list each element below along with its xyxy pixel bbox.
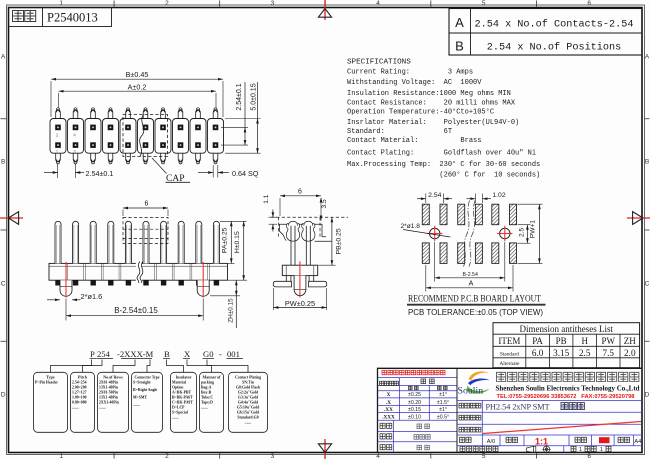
svg-text:6: 6 bbox=[587, 453, 591, 459]
dimension PB±0.25 (rotated) bbox=[319, 264, 336, 266]
svg-text:2X01-50Pin: 2X01-50Pin bbox=[99, 390, 119, 394]
svg-text:001: 001 bbox=[227, 349, 240, 359]
pcb dimension B-2.54 bbox=[434, 242, 436, 282]
pcb layout: hole left with red cross bbox=[430, 228, 440, 238]
front view: SMT feet bbox=[55, 280, 219, 285]
svg-text:D=LCP: D=LCP bbox=[172, 405, 185, 409]
svg-text:B: B bbox=[645, 158, 649, 165]
svg-text:C: C bbox=[645, 280, 650, 287]
dimension B-2.54±0.15 (peg span) bbox=[65, 299, 67, 321]
version row texts bbox=[460, 437, 472, 442]
pcb layout: pads bottom row bbox=[422, 243, 516, 264]
svg-text:1.1: 1.1 bbox=[263, 194, 270, 203]
pcb dimension 1.02 bbox=[474, 194, 476, 204]
svg-text:P2540013: P2540013 bbox=[47, 11, 98, 25]
svg-text:Bag:A: Bag:A bbox=[201, 385, 212, 389]
sheet centering marker top bbox=[324, 0, 326, 20]
sign rows: design / check / approve bbox=[380, 423, 392, 428]
side view: gull-wing leg left bbox=[273, 276, 291, 287]
svg-text:.......: ....... bbox=[133, 403, 140, 407]
svg-text:PB: PB bbox=[556, 336, 567, 346]
file row red slash bbox=[483, 422, 641, 434]
bottom row: projection + sheet count bbox=[563, 446, 565, 452]
svg-text:Box:B: Box:B bbox=[201, 390, 212, 394]
svg-text:Option: Option bbox=[172, 385, 184, 389]
svg-text:M=SMT: M=SMT bbox=[133, 396, 147, 400]
svg-text:-2XXX-M: -2XXX-M bbox=[117, 349, 154, 359]
svg-text:±0.10: ±0.10 bbox=[408, 414, 421, 420]
svg-text:Current Rating: 3 Amps: Current Rating: 3 Amps bbox=[347, 69, 473, 77]
sheet centering marker left bbox=[0, 217, 23, 219]
svg-text:1.27=127: 1.27=127 bbox=[72, 390, 87, 394]
svg-text:±0.25: ±0.25 bbox=[408, 392, 421, 398]
svg-text:S=Special: S=Special bbox=[172, 410, 188, 414]
front view: locating peg left bbox=[60, 280, 72, 296]
option box Insulator Material bbox=[171, 372, 197, 432]
svg-text:2.54 x No.of Contacts-2.54: 2.54 x No.of Contacts-2.54 bbox=[475, 19, 634, 31]
svg-text:Insulator: Insulator bbox=[176, 374, 192, 379]
svg-text:A: A bbox=[1, 53, 6, 60]
svg-text:±0.5°: ±0.5° bbox=[437, 414, 449, 420]
svg-text:2.0: 2.0 bbox=[624, 348, 636, 358]
svg-text:1: 1 bbox=[59, 453, 63, 459]
dimension 6 (cap width, front view) bbox=[122, 210, 124, 217]
svg-text:2.5: 2.5 bbox=[519, 227, 526, 236]
option box Connector Type bbox=[132, 372, 163, 432]
svg-text:PA±0.25: PA±0.25 bbox=[221, 227, 228, 253]
svg-text:2*ø1.8: 2*ø1.8 bbox=[401, 223, 421, 230]
svg-text:3: 3 bbox=[271, 453, 275, 459]
svg-text:.X: .X bbox=[386, 400, 391, 406]
svg-text:Manner of: Manner of bbox=[202, 374, 221, 379]
svg-text:2.54 x No.of Positions: 2.54 x No.of Positions bbox=[487, 42, 622, 54]
svg-text:G0:Gold Flash: G0:Gold Flash bbox=[236, 385, 261, 389]
svg-text:A/0: A/0 bbox=[487, 439, 495, 445]
top view: CAP leader and label bbox=[152, 158, 167, 174]
svg-text:2: 2 bbox=[165, 0, 169, 7]
ordering code underlines bbox=[90, 358, 244, 360]
svg-text:ZH: ZH bbox=[624, 336, 636, 346]
svg-text:.XXX: .XXX bbox=[382, 414, 395, 420]
dimension A±0.2 (top view pin span) bbox=[58, 93, 60, 108]
svg-text:A4: A4 bbox=[634, 439, 641, 445]
svg-text:1.00=100: 1.00=100 bbox=[72, 395, 87, 399]
svg-text:±1.5°: ±1.5° bbox=[437, 400, 449, 406]
svg-text:3: 3 bbox=[271, 0, 275, 7]
option box Contact Plating bbox=[229, 372, 268, 432]
title block right grid bbox=[457, 400, 642, 402]
front view: locating peg right bbox=[197, 280, 209, 296]
svg-text:±0.20: ±0.20 bbox=[408, 400, 421, 406]
svg-text:C=BK-PA9T: C=BK-PA9T bbox=[172, 400, 193, 404]
tolerance table red header bbox=[382, 370, 445, 375]
dimension PA±0.25 (pin height, rotated) bbox=[220, 220, 247, 222]
svg-text:A: A bbox=[469, 278, 474, 287]
sheet centering marker bottom bbox=[324, 439, 326, 459]
pcb dimension 2.5 (rotated) bbox=[518, 224, 531, 226]
svg-text:A=BK-PBT: A=BK-PBT bbox=[172, 390, 192, 394]
svg-text:Contact Plating: Goldfla: Contact Plating: Goldflash over 40u" Ni bbox=[347, 150, 536, 158]
dimension 2*Ø1.6 (peg diameter) bbox=[47, 299, 60, 301]
side view: left ledge profile bbox=[279, 224, 287, 240]
svg-text:2.54±0.1: 2.54±0.1 bbox=[236, 83, 243, 110]
svg-text:1.02: 1.02 bbox=[492, 192, 505, 199]
svg-text:±1°: ±1° bbox=[439, 407, 447, 413]
pcb layout: pads top row bbox=[422, 204, 516, 225]
svg-text:H±0.15: H±0.15 bbox=[234, 231, 241, 253]
svg-text:Type: Type bbox=[46, 374, 55, 379]
A/B formula table bbox=[449, 9, 642, 56]
svg-text:Withstanding Voltage: AC 100: Withstanding Voltage: AC 1000V bbox=[347, 79, 482, 87]
tolerance table grid (blue) bbox=[378, 377, 458, 379]
svg-text:S=Straight: S=Straight bbox=[133, 380, 151, 384]
svg-text:.......: ....... bbox=[72, 405, 79, 409]
side view: cap dashed sides bbox=[278, 217, 280, 237]
svg-text:PH2.54 2xNP SMT: PH2.54 2xNP SMT bbox=[486, 403, 550, 412]
svg-text:P=Pin Header: P=Pin Header bbox=[35, 380, 58, 384]
svg-text:TEL:0755-29520696 33853672 F: TEL:0755-29520696 33853672 FAX:0755-2952… bbox=[497, 394, 635, 400]
svg-text:(260° C for 10 seconds): (260° C for 10 seconds) bbox=[347, 171, 540, 180]
svg-text:Tape:D: Tape:D bbox=[201, 400, 213, 404]
svg-text:Insulation Resistance:1000 Meg: Insulation Resistance:1000 Meg ohms MIN bbox=[347, 90, 511, 98]
front view: red center lines through pegs bbox=[65, 262, 67, 298]
svg-text:Alternate: Alternate bbox=[499, 361, 520, 367]
option box Pitch bbox=[71, 372, 95, 432]
svg-text:Contact Plating: Contact Plating bbox=[235, 375, 261, 379]
part number box bbox=[9, 8, 112, 27]
side view: cap dashed top line bbox=[271, 216, 348, 218]
svg-text:Shenzhen Soulin Electronics Te: Shenzhen Soulin Electronics Technology C… bbox=[496, 385, 640, 392]
svg-text:3.5: 3.5 bbox=[321, 199, 328, 208]
option box Type bbox=[34, 372, 68, 432]
svg-text:Tube:C: Tube:C bbox=[201, 395, 213, 399]
svg-text:D: D bbox=[1, 391, 6, 398]
dimension 2.54±0.1 row pitch (right side, rotated) bbox=[221, 126, 248, 128]
svg-text:3.15: 3.15 bbox=[553, 348, 569, 358]
svg-text:A±0.2: A±0.2 bbox=[128, 82, 147, 91]
svg-text:2XX1-40Pin: 2XX1-40Pin bbox=[99, 400, 120, 404]
top view: header body segments bbox=[50, 119, 224, 154]
svg-text:P: P bbox=[90, 349, 95, 359]
svg-text:6: 6 bbox=[298, 188, 302, 195]
ordering code leader lines bbox=[51, 360, 249, 373]
dimension ZH±0.15 (peg depth, rotated) bbox=[210, 295, 240, 297]
svg-text:6: 6 bbox=[587, 0, 591, 7]
svg-text:.......: ....... bbox=[172, 415, 179, 419]
svg-text:.......: ....... bbox=[245, 420, 252, 424]
side view: right ledge profile bbox=[300, 224, 332, 241]
svg-text:ZH±0.15: ZH±0.15 bbox=[228, 298, 235, 323]
company chinese name bbox=[497, 372, 639, 381]
svg-text:D: D bbox=[645, 391, 650, 398]
version row cells bbox=[499, 435, 501, 446]
svg-text:SPECIFICATIONS: SPECIFICATIONS bbox=[347, 58, 411, 66]
svg-text:B±0.45: B±0.45 bbox=[126, 70, 149, 79]
svg-text:Material: Material bbox=[172, 380, 186, 384]
svg-text:PW: PW bbox=[602, 336, 616, 346]
svg-text:Soulin: Soulin bbox=[458, 386, 484, 397]
sheet count text bbox=[571, 446, 576, 451]
svg-text:4: 4 bbox=[376, 0, 380, 7]
svg-text:PW+1: PW+1 bbox=[529, 220, 536, 238]
svg-text:Pitch: Pitch bbox=[78, 374, 88, 379]
label TuHao (drawing no.) bbox=[13, 11, 36, 22]
svg-text:B-2.54: B-2.54 bbox=[463, 272, 478, 278]
svg-text:.......: ....... bbox=[201, 405, 208, 409]
dimension PW±0.25 (leg span) bbox=[272, 288, 274, 310]
svg-text:4: 4 bbox=[376, 453, 380, 459]
signer names bbox=[417, 424, 429, 429]
option box No.of Rows bbox=[98, 372, 129, 432]
dimension H±0.15 (rotated) bbox=[228, 279, 247, 281]
top view: pin numbers 1-4 bbox=[56, 133, 77, 155]
svg-text:7.5: 7.5 bbox=[603, 348, 615, 358]
svg-text:6: 6 bbox=[145, 201, 149, 208]
svg-text:254: 254 bbox=[97, 349, 111, 359]
dimension 1.1 (rotated) bbox=[269, 216, 278, 218]
svg-text:packing: packing bbox=[201, 380, 214, 384]
border zone ticks and labels bbox=[113, 1, 115, 8]
svg-text:2: 2 bbox=[165, 453, 169, 459]
dimension 6 (side view cap width) bbox=[279, 198, 281, 216]
top view: break squiggle inside CAP bbox=[140, 115, 144, 157]
svg-text:-: - bbox=[219, 349, 222, 359]
svg-text:13X1-40Pin: 13X1-40Pin bbox=[99, 395, 119, 399]
svg-text:B=BK-PA6T: B=BK-PA6T bbox=[172, 395, 193, 399]
title block outline bbox=[378, 368, 643, 452]
svg-text:B: B bbox=[164, 349, 170, 359]
svg-text:Standard: Standard bbox=[500, 351, 519, 357]
svg-text:Insrlator Material: Polyest: Insrlator Material: Polyester(UL94V-0) bbox=[347, 119, 519, 127]
dimension 0.64 SQ (pin cross-section) bbox=[212, 165, 214, 178]
svg-text:B: B bbox=[1, 158, 5, 165]
svg-text:5.0±0.15: 5.0±0.15 bbox=[251, 83, 258, 110]
top view: CAP dashed outline bbox=[123, 115, 168, 157]
side view: gull-wing leg right bbox=[308, 276, 326, 287]
svg-text:No.of Rows: No.of Rows bbox=[103, 374, 123, 379]
side view: contacts (two tulip contacts) bbox=[286, 221, 315, 265]
option box Manner of packing bbox=[200, 372, 224, 432]
svg-text:PW±0.25: PW±0.25 bbox=[285, 299, 315, 308]
company logo swoosh bbox=[469, 371, 490, 380]
dimension B±0.45 (top view overall width) bbox=[50, 81, 52, 117]
svg-text:2.54±0.1: 2.54±0.1 bbox=[86, 169, 114, 178]
svg-text:X: X bbox=[387, 392, 391, 398]
svg-text:Dimension antitheses List: Dimension antitheses List bbox=[520, 324, 614, 334]
svg-text:Standard:G0: Standard:G0 bbox=[237, 415, 258, 419]
svg-text:0.64 SQ: 0.64 SQ bbox=[232, 169, 259, 178]
svg-text:1: 1 bbox=[600, 447, 603, 453]
top view: contact square holes bbox=[55, 125, 218, 148]
svg-text:G5:10u"Gold: G5:10u"Gold bbox=[237, 405, 260, 409]
side view: insulator body block bbox=[282, 265, 317, 275]
svg-text:G4:4u"Gold: G4:4u"Gold bbox=[238, 400, 259, 404]
svg-text:1:1: 1:1 bbox=[535, 436, 548, 446]
svg-text:±0.15: ±0.15 bbox=[408, 407, 421, 413]
tolerance table col labels bbox=[380, 381, 399, 385]
svg-text:PB±0.25: PB±0.25 bbox=[336, 228, 343, 254]
dimension antitheses list table bbox=[493, 323, 640, 368]
dimension 3.5 (rotated) bbox=[320, 198, 323, 203]
front view: segment boundary lines in body bbox=[66, 263, 210, 280]
svg-text:2*ø1.6: 2*ø1.6 bbox=[81, 292, 103, 301]
sheet centering marker right bbox=[627, 217, 650, 219]
svg-text:.XX: .XX bbox=[384, 407, 393, 413]
svg-text:5: 5 bbox=[482, 0, 486, 7]
svg-text:Contact Material: Bra: Contact Material: Brass bbox=[347, 137, 481, 145]
front view: pins bbox=[55, 221, 219, 263]
svg-text:G2:2u"Gold: G2:2u"Gold bbox=[238, 390, 259, 394]
pcb dimension 2.54 bbox=[425, 194, 427, 204]
svg-text:G6:15u"Gold: G6:15u"Gold bbox=[237, 410, 260, 414]
svg-text:RECOMMEND P.C.B BOARD LAYOUT: RECOMMEND P.C.B BOARD LAYOUT bbox=[408, 294, 541, 304]
svg-text:C: C bbox=[1, 280, 6, 287]
svg-text:.......: ....... bbox=[99, 405, 106, 409]
svg-text:PCB TOLERANCE:±0.05 (TOP VIEW): PCB TOLERANCE:±0.05 (TOP VIEW) bbox=[408, 308, 543, 317]
svg-text:G3:3u"Gold: G3:3u"Gold bbox=[238, 395, 259, 399]
svg-text:2.00=200: 2.00=200 bbox=[72, 385, 87, 389]
svg-text:0.80=080: 0.80=080 bbox=[72, 400, 87, 404]
pcb dimension A bbox=[425, 265, 427, 292]
svg-text:B-2.54±0.15: B-2.54±0.15 bbox=[114, 306, 158, 315]
svg-text:Connector Type: Connector Type bbox=[134, 375, 159, 379]
dimension 5.0±0.15 body width (right side, rotated) bbox=[225, 118, 261, 120]
svg-text:±1°: ±1° bbox=[439, 392, 447, 398]
svg-text:2X01-40Pin: 2X01-40Pin bbox=[99, 380, 119, 384]
svg-text:2.54=254: 2.54=254 bbox=[72, 380, 87, 384]
dimension 2.54±0.1 pin pitch (bottom left) bbox=[57, 164, 59, 178]
row labels: product model / product no / file mgmt / version bbox=[459, 403, 481, 408]
svg-text:1: 1 bbox=[59, 0, 63, 7]
svg-text:A: A bbox=[455, 15, 464, 30]
svg-text:6.0: 6.0 bbox=[532, 348, 544, 358]
svg-text:PA: PA bbox=[532, 336, 543, 346]
pcb dimension PW+1 (rotated) bbox=[518, 203, 543, 205]
first-angle projection symbols bbox=[527, 446, 536, 452]
svg-text:ITEM: ITEM bbox=[498, 336, 520, 346]
svg-text:Max.Processing Temp: 230° C f: Max.Processing Temp: 230° C for 30-60 se… bbox=[347, 160, 540, 169]
front view: insulator body bbox=[49, 263, 228, 280]
pcb layout: hole right with red cross bbox=[500, 228, 510, 238]
svg-text:SN:Tin: SN:Tin bbox=[242, 380, 255, 384]
svg-text:Contact Resistance: 20 mill: Contact Resistance: 20 milli ohms MAX bbox=[347, 99, 516, 107]
svg-text:A: A bbox=[645, 53, 650, 60]
svg-text:G0: G0 bbox=[203, 349, 214, 359]
svg-text:13X1-40Pin: 13X1-40Pin bbox=[99, 385, 119, 389]
side view: red center line bbox=[299, 262, 301, 298]
svg-text:Standard: 6T: Standard: 6T bbox=[347, 128, 452, 136]
front view: cap dashed outline (side) bbox=[123, 217, 168, 243]
svg-text:H: H bbox=[581, 336, 588, 346]
svg-text:B: B bbox=[455, 39, 464, 54]
pcb layout: break lines (dash-dot waves) bbox=[464, 201, 470, 267]
svg-text:5: 5 bbox=[482, 453, 486, 459]
side view: center peg (bullet) bbox=[294, 276, 306, 296]
top view: mating pins (top and bottom posts) bbox=[56, 108, 218, 164]
svg-text:2.5: 2.5 bbox=[579, 348, 591, 358]
svg-text:R=Right Angle: R=Right Angle bbox=[133, 388, 158, 392]
svg-text:2.54: 2.54 bbox=[428, 192, 441, 199]
svg-text:Operation Temperature:-40°Cto+: Operation Temperature:-40°Cto+105°C bbox=[347, 107, 494, 116]
front view: body break squiggle bbox=[136, 263, 142, 281]
svg-text:1: 1 bbox=[579, 447, 582, 453]
svg-text:X: X bbox=[184, 349, 191, 359]
